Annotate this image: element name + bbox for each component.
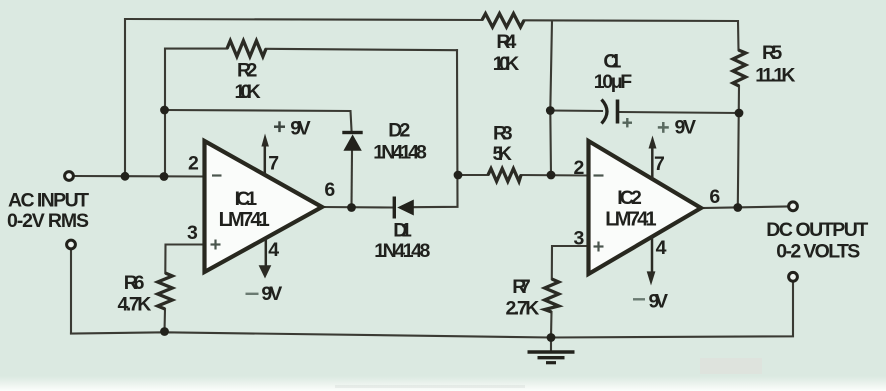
svg-text:IC2: IC2 bbox=[617, 187, 642, 209]
svg-text:R7: R7 bbox=[512, 276, 530, 298]
svg-text:R2: R2 bbox=[237, 60, 258, 82]
svg-text:IC1: IC1 bbox=[235, 188, 258, 210]
svg-text:5K: 5K bbox=[493, 143, 513, 165]
svg-text:0-2 VOLTS: 0-2 VOLTS bbox=[776, 241, 860, 263]
svg-text:R4: R4 bbox=[496, 31, 516, 53]
svg-text:4: 4 bbox=[268, 239, 279, 261]
svg-text:10K: 10K bbox=[493, 53, 519, 75]
svg-text:4: 4 bbox=[656, 237, 667, 259]
svg-text:D1: D1 bbox=[393, 220, 412, 242]
svg-text:3: 3 bbox=[187, 222, 198, 244]
svg-text:6: 6 bbox=[709, 186, 720, 208]
svg-text:3: 3 bbox=[574, 228, 585, 250]
svg-text:10K: 10K bbox=[235, 81, 261, 103]
svg-text:11.1K: 11.1K bbox=[755, 65, 795, 87]
svg-text:10μF: 10μF bbox=[594, 71, 632, 93]
svg-text:R6: R6 bbox=[124, 272, 145, 294]
svg-text:R5: R5 bbox=[762, 42, 782, 64]
svg-text:0-2V RMS: 0-2V RMS bbox=[7, 210, 89, 232]
svg-text:DC OUTPUT: DC OUTPUT bbox=[766, 219, 868, 241]
svg-text:LM741: LM741 bbox=[605, 208, 656, 230]
svg-text:9V: 9V bbox=[675, 117, 697, 139]
svg-text:1N4148: 1N4148 bbox=[373, 142, 427, 164]
svg-text:6: 6 bbox=[324, 179, 335, 201]
svg-text:9V: 9V bbox=[649, 291, 669, 313]
svg-text:7: 7 bbox=[268, 153, 279, 175]
svg-text:2.7K: 2.7K bbox=[506, 298, 540, 320]
svg-text:AC INPUT: AC INPUT bbox=[8, 190, 89, 212]
svg-text:D2: D2 bbox=[388, 120, 410, 142]
svg-text:LM741: LM741 bbox=[219, 209, 270, 231]
svg-text:9V: 9V bbox=[290, 118, 311, 140]
svg-text:R3: R3 bbox=[493, 123, 513, 145]
svg-text:4.7K: 4.7K bbox=[118, 294, 152, 316]
svg-text:C1: C1 bbox=[603, 51, 621, 73]
svg-text:2: 2 bbox=[188, 152, 199, 174]
svg-text:9V: 9V bbox=[261, 283, 282, 305]
svg-text:2: 2 bbox=[574, 157, 585, 179]
svg-text:1N4148: 1N4148 bbox=[374, 240, 430, 262]
svg-text:7: 7 bbox=[654, 153, 665, 175]
